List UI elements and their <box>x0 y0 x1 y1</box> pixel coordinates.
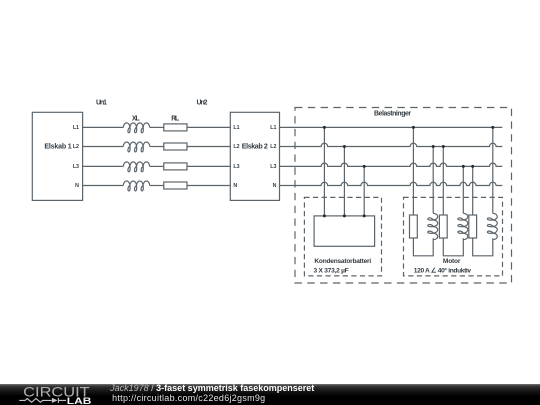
svg-text:Belastninger: Belastninger <box>374 111 411 118</box>
svg-text:XL: XL <box>132 115 140 122</box>
wire motor R2 drop from L2 <box>442 147 444 216</box>
wire L3 Elskab1 to XL <box>83 165 124 167</box>
svg-text:L1: L1 <box>73 125 79 131</box>
inductor on L2 phase <box>123 142 149 152</box>
svg-text:L3: L3 <box>73 164 79 170</box>
svg-text:L3: L3 <box>233 164 239 170</box>
dashed box Belastninger <box>295 108 512 284</box>
wire L1 bus <box>280 126 503 128</box>
svg-text:Kondensatorbatteri: Kondensatorbatteri <box>314 258 371 265</box>
svg-text:3 X 373,2 µF: 3 X 373,2 µF <box>314 267 349 274</box>
junction node L2-motorR2 <box>442 145 445 148</box>
svg-text:L3: L3 <box>270 164 276 170</box>
junction node L1-cap <box>323 126 326 129</box>
svg-text:Un1: Un1 <box>96 99 107 106</box>
svg-text:Un2: Un2 <box>197 99 208 106</box>
inductor motor branch 1 <box>428 213 438 239</box>
wire motor branch2 bottom U <box>443 238 463 256</box>
CircuitLab logo <box>0 376 110 405</box>
resistor motor branch 2 <box>439 215 447 238</box>
resistor on N phase <box>164 182 187 189</box>
wire capacitor phase L2 drop <box>343 147 345 216</box>
footer url line <box>112 393 265 403</box>
wire motor L2ind top to L3 <box>462 166 464 213</box>
svg-text:LAB: LAB <box>67 396 92 405</box>
wire L1 RL to Elskab2 <box>187 126 230 128</box>
svg-text:N: N <box>75 183 79 189</box>
svg-text:120 A ∠ 40° induktiv: 120 A ∠ 40° induktiv <box>414 266 472 274</box>
wire capacitor phase L3 drop <box>363 166 365 216</box>
inductor on N phase <box>123 181 149 191</box>
wire motor R3 drop from L3 <box>472 166 474 215</box>
inductor motor branch 3 <box>487 213 497 239</box>
junction node L2-cap <box>343 145 346 148</box>
wire N XL to RL <box>150 185 164 187</box>
box Elskab 2 <box>230 112 279 200</box>
svg-text:L2: L2 <box>270 144 276 150</box>
inductor on L3 phase <box>123 162 149 172</box>
wire L1 Elskab1 to XL <box>83 126 124 128</box>
wire motor branch1 bottom U <box>413 238 433 256</box>
wire L2 Elskab1 to XL <box>83 146 124 148</box>
footer credit line <box>110 383 314 393</box>
capacitor bank box <box>314 216 375 246</box>
svg-text:Elskab 1: Elskab 1 <box>44 143 71 151</box>
wire N Elskab1 to XL <box>83 185 124 187</box>
svg-text:RL: RL <box>171 115 179 122</box>
svg-text:N: N <box>273 183 277 189</box>
inductor XL (L1 phase) <box>123 123 149 133</box>
dashed box Motor <box>404 197 503 276</box>
svg-text:Motor: Motor <box>443 258 461 265</box>
svg-text:L1: L1 <box>233 125 239 131</box>
junction node L3-motorL2 <box>462 165 465 168</box>
svg-text:L2: L2 <box>233 144 239 150</box>
box Elskab 1 <box>32 112 82 200</box>
resistor motor branch 1 <box>410 215 418 238</box>
wire motor L1ind top to L2 <box>432 147 434 214</box>
junction node capbox-3 <box>363 214 366 217</box>
wire L3 XL to RL <box>150 165 164 167</box>
junction node L3-cap <box>363 165 366 168</box>
svg-text:Elskab 2: Elskab 2 <box>242 143 268 151</box>
wire N bus with crossover hops <box>280 182 503 185</box>
junction node L2-motorL1 <box>432 145 435 148</box>
wire L2 XL to RL <box>150 146 164 148</box>
resistor on L3 phase <box>164 163 187 170</box>
junction node capbox-2 <box>343 214 346 217</box>
svg-text:L2: L2 <box>73 144 79 150</box>
footer bar <box>0 384 540 405</box>
resistor motor branch 3 <box>469 215 477 238</box>
wire motor branch3 bottom U <box>473 238 493 256</box>
wire L3 RL to Elskab2 <box>187 165 230 167</box>
dashed box Kondensatorbatteri <box>304 197 381 276</box>
wire L1 XL to RL <box>150 126 164 128</box>
resistor RL (L1 phase) <box>164 124 187 131</box>
junction node L1-motorL3 <box>491 126 494 129</box>
wire capacitor phase L1 drop <box>323 127 325 215</box>
wire N RL to Elskab2 <box>187 185 230 187</box>
junction node L3-motorR3 <box>471 165 474 168</box>
wire L2 bus with crossover hops <box>280 143 503 146</box>
wire motor R1 drop from L1 <box>412 127 414 215</box>
junction node L1-motorR1 <box>412 126 415 129</box>
inductor motor branch 2 <box>458 213 468 239</box>
svg-text:N: N <box>233 183 237 189</box>
resistor on L2 phase <box>164 143 187 150</box>
wire L3 bus with crossover hops <box>280 163 503 166</box>
junction node capbox-1 <box>323 214 326 217</box>
wire L2 RL to Elskab2 <box>187 146 230 148</box>
wire motor L3ind top to L1 <box>492 127 494 213</box>
svg-text:L1: L1 <box>270 125 276 131</box>
